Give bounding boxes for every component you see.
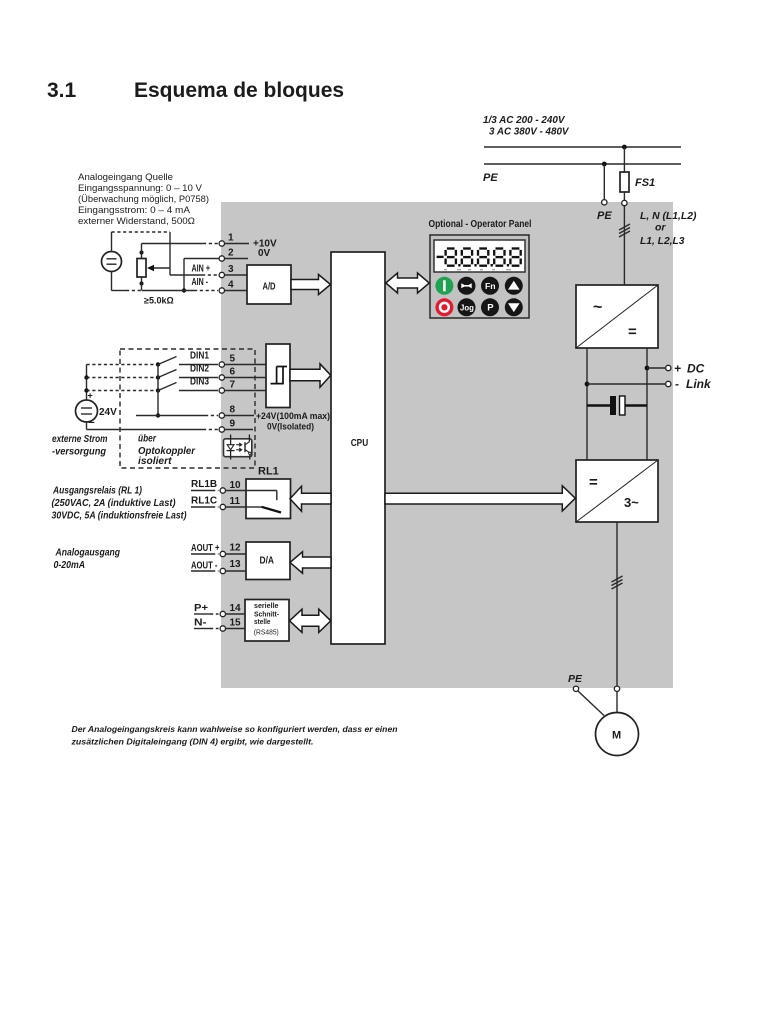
svg-text:=: = (628, 324, 637, 341)
wire DC minus tap (587, 383, 666, 385)
supply voltage label (483, 114, 569, 138)
svg-text:Eingangsstrom: 0 – 4 mA: Eingangsstrom: 0 – 4 mA (78, 205, 191, 216)
svg-text:PE: PE (597, 210, 612, 222)
terminal 11 (220, 496, 246, 510)
terminal PE circle (602, 200, 607, 205)
terminal 1 (219, 233, 249, 247)
wire DIN common (136, 365, 218, 418)
CPU block (331, 252, 385, 644)
terminal 15 (220, 618, 245, 632)
A/D converter block (247, 265, 291, 304)
svg-text:isoliert: isoliert (138, 456, 172, 467)
svg-text:P+: P+ (194, 603, 208, 614)
svg-text:AIN +: AIN + (192, 264, 211, 275)
svg-text:8: 8 (230, 405, 236, 416)
wire DC bus right (646, 348, 648, 460)
wire terminal 2 left (182, 259, 219, 293)
wire to terminal 1 (142, 243, 219, 245)
operator panel display (434, 240, 525, 272)
svg-text:FS1: FS1 (635, 177, 655, 189)
svg-text:4: 4 (228, 280, 234, 291)
section heading 3.1 Esquema de bloques (47, 79, 344, 102)
optocoupler dashed enclosure (120, 349, 255, 468)
potentiometer R1 (137, 244, 146, 291)
wire PE drop (603, 164, 605, 200)
svg-text:+24V(100mA max): +24V(100mA max) (256, 411, 330, 422)
svg-text:Jog: Jog (460, 303, 474, 312)
svg-text:3~: 3~ (624, 495, 639, 510)
0V label (258, 248, 271, 259)
terminal DC plus (666, 365, 671, 370)
operator panel title (429, 219, 532, 230)
L,N terminal label (640, 210, 697, 247)
terminal 2 (219, 248, 248, 262)
svg-text:Esquema de bloques: Esquema de bloques (134, 79, 344, 102)
svg-text:≥5.0kΩ: ≥5.0kΩ (144, 296, 174, 306)
svg-text:3: 3 (228, 264, 234, 275)
P+ label and wire (194, 603, 219, 614)
wire mains line L (484, 146, 681, 148)
svg-text:stelle: stelle (254, 617, 271, 626)
arrow CPU to relay (290, 486, 331, 511)
display seven-segment digits (437, 249, 521, 270)
svg-text:6: 6 (230, 367, 236, 378)
svg-text:RL1B: RL1B (191, 479, 217, 490)
terminal 14 (220, 603, 245, 617)
terminal 10 (220, 480, 246, 493)
svg-text:=: = (589, 474, 598, 491)
svg-text:DIN3: DIN3 (190, 377, 209, 388)
svg-text:Analogausgang: Analogausgang (55, 548, 120, 559)
svg-text:RL1: RL1 (258, 466, 279, 478)
svg-text:Analogeingang Quelle: Analogeingang Quelle (78, 172, 173, 183)
button O red (435, 298, 453, 316)
wire DC plus tap (647, 367, 666, 369)
svg-text:0-20mA: 0-20mA (54, 560, 86, 571)
terminal motor output (614, 686, 619, 691)
schmitt trigger input block (266, 344, 290, 408)
svg-text:DC: DC (687, 362, 705, 376)
rectifier block AC/DC (576, 285, 658, 348)
AOUT+ label and wire (191, 543, 220, 554)
wire mains line PE (484, 163, 681, 165)
switch DIN3 (156, 383, 218, 393)
operator panel housing (430, 235, 529, 318)
footnote caption (70, 724, 397, 747)
wire 24V plus rail (84, 365, 88, 401)
wire AIN+ to terminal 3 (170, 274, 218, 276)
RL1B label and wire (191, 479, 219, 491)
svg-text:-versorgung: -versorgung (52, 447, 106, 458)
switch DIN2 (156, 370, 218, 380)
RL1C label and wire (191, 496, 219, 508)
svg-text:14: 14 (230, 603, 242, 614)
FS1 label (635, 177, 655, 189)
terminal 7 (219, 380, 266, 394)
svg-text:0V: 0V (258, 248, 271, 259)
arrow A/D to CPU (291, 275, 331, 295)
button P (481, 298, 499, 316)
svg-text:P: P (487, 303, 494, 314)
svg-text:Link: Link (686, 377, 712, 391)
svg-text:(Überwachung möglich, P0758): (Überwachung möglich, P0758) (78, 194, 209, 205)
RL1 label (258, 466, 279, 478)
wire source top dashed (112, 232, 171, 252)
5k ohm label (144, 296, 174, 306)
svg-text:AOUT +: AOUT + (191, 543, 220, 554)
svg-text:7: 7 (230, 380, 236, 391)
optocoupler U3 (224, 435, 252, 460)
line break marks on input feed (619, 224, 630, 237)
AOUT- label and wire (191, 561, 219, 572)
node DC plus (645, 366, 650, 371)
wire motor feed (616, 522, 618, 686)
svg-text:5: 5 (230, 354, 236, 365)
wire DIN3 feed (87, 390, 156, 392)
DC link capacitor C1 (587, 396, 647, 415)
motor M (596, 713, 639, 756)
AIN labels (192, 264, 211, 288)
terminal 6 (219, 367, 266, 381)
inverter block DC/AC U2 (576, 460, 658, 522)
switch DIN1 (156, 357, 218, 367)
DIN2 label (190, 364, 209, 375)
wire PE to motor (578, 691, 604, 716)
wire DIN1 feed (87, 364, 156, 366)
terminal 8 (219, 405, 254, 419)
wire L drop to fuse (623, 147, 625, 172)
svg-text:–: – (89, 417, 95, 429)
svg-text:CPU: CPU (351, 438, 369, 449)
relay RL1 block (246, 479, 291, 519)
arrow CPU to inverter (385, 486, 575, 511)
svg-text:AOUT -: AOUT - (191, 561, 218, 572)
svg-text:N-: N- (194, 618, 207, 629)
terminal 13 (220, 559, 246, 574)
wire 24V minus to terminal 9 (87, 422, 219, 430)
arrow CPU to panel double (386, 273, 430, 293)
svg-text:(250VAC, 2A (induktive Last): (250VAC, 2A (induktive Last) (52, 498, 177, 509)
svg-text:10: 10 (230, 480, 242, 491)
svg-text:Optional - Operator Panel: Optional - Operator Panel (429, 219, 532, 230)
line break marks on motor feed (612, 576, 623, 589)
svg-text:Eingangsspannung: 0 – 10 V: Eingangsspannung: 0 – 10 V (78, 183, 203, 194)
svg-text:+: + (88, 391, 93, 401)
24V source V2 (76, 391, 118, 429)
svg-text:1/3 AC 200 - 240V: 1/3 AC 200 - 240V (483, 114, 565, 126)
svg-text:L, N (L1,L2): L, N (L1,L2) (640, 210, 697, 222)
svg-text:Fn: Fn (485, 281, 496, 291)
button down arrow (505, 298, 523, 316)
svg-text:A/D: A/D (263, 282, 276, 293)
wire AIN- bottom (112, 272, 219, 291)
DIN3 label (190, 377, 209, 388)
svg-text:Ausgangsrelais (RL 1): Ausgangsrelais (RL 1) (52, 486, 142, 497)
terminal 4 (219, 280, 247, 294)
svg-text:D/A: D/A (260, 556, 275, 567)
svg-text:Der Analogeingangskreis kann w: Der Analogeingangskreis kann wahlweise s… (72, 724, 398, 734)
svg-text:PE: PE (568, 673, 583, 685)
button up arrow (505, 277, 523, 295)
svg-text:11: 11 (230, 496, 241, 507)
button Jog (458, 298, 476, 316)
svg-text:M: M (612, 730, 621, 742)
relay annotation (52, 486, 188, 522)
potentiometer wiper arrow (147, 265, 170, 271)
button Fn (481, 277, 499, 295)
svg-text:30VDC, 5A (induktionsfreie Las: 30VDC, 5A (induktionsfreie Last) (52, 511, 188, 522)
arrow serial to CPU double (290, 609, 331, 632)
D/A converter block (246, 542, 290, 580)
svg-text:24V: 24V (99, 407, 117, 418)
svg-text:3.1: 3.1 (47, 79, 77, 102)
svg-text:über: über (138, 434, 157, 445)
svg-text:AIN -: AIN - (192, 277, 209, 288)
node on PE line (602, 162, 607, 167)
DC Link label (674, 362, 712, 392)
terminal 5 (219, 354, 266, 368)
wire DIN2 feed (87, 377, 156, 379)
svg-text:+: + (674, 362, 681, 376)
node DC minus (585, 382, 590, 387)
svg-text:3 AC 380V - 480V: 3 AC 380V - 480V (489, 126, 569, 138)
fuse FS1 (620, 172, 629, 200)
PE label (483, 172, 498, 184)
wire input feed into rectifier (623, 206, 625, 285)
svg-text:externer Widerstand, 500Ω: externer Widerstand, 500Ω (78, 216, 195, 227)
analog output annotation (54, 548, 121, 572)
DIN1 label (190, 351, 209, 362)
svg-text:DIN1: DIN1 (190, 351, 209, 362)
svg-text:RL1C: RL1C (191, 496, 217, 507)
svg-text:0V(Isolated): 0V(Isolated) (267, 422, 314, 433)
externe Strom annotation (52, 434, 108, 458)
PE terminal label (597, 210, 612, 222)
node on mains line L (622, 145, 627, 150)
svg-text:12: 12 (230, 543, 242, 554)
terminal PE output (573, 686, 578, 691)
svg-text:-: - (675, 377, 679, 391)
svg-text:~: ~ (593, 299, 602, 316)
svg-text:1: 1 (228, 233, 234, 244)
terminal DC minus (666, 381, 671, 386)
button I green (435, 277, 453, 295)
svg-text:2: 2 (228, 248, 234, 259)
terminal 3 (219, 264, 247, 278)
+10V label (253, 239, 277, 250)
svg-text:L1, L2,L3: L1, L2,L3 (640, 235, 685, 247)
svg-text:(RS485): (RS485) (254, 630, 279, 637)
svg-text:15: 15 (230, 618, 242, 629)
wire AIN+ branch vertical (169, 232, 171, 275)
terminal 9 (219, 419, 253, 433)
arrow CPU to D/A (290, 552, 331, 573)
inverter enclosure gray panel (221, 202, 673, 688)
voltage source V1 (102, 252, 122, 272)
svg-text:9: 9 (230, 419, 236, 430)
terminal L circle (622, 200, 627, 205)
analog input source annotation (78, 172, 209, 227)
wire DC bus left (586, 348, 588, 460)
terminal 12 (220, 543, 246, 557)
+24V output label (256, 411, 330, 433)
PE motor label (568, 673, 583, 685)
svg-text:DIN2: DIN2 (190, 364, 209, 375)
wire terminal to motor (616, 692, 618, 713)
serial interface block (245, 600, 289, 642)
svg-text:or: or (655, 222, 666, 234)
button reverse (458, 277, 476, 295)
svg-text:zusätzlichen Digitaleingang (D: zusätzlichen Digitaleingang (DIN 4) ergi… (70, 737, 313, 747)
arrow digital input to CPU (290, 364, 331, 387)
svg-text:13: 13 (230, 559, 242, 570)
ueber Optokoppler annotation (138, 434, 196, 468)
svg-text:externe Strom: externe Strom (52, 434, 108, 445)
svg-text:PE: PE (483, 172, 498, 184)
N- label and wire (194, 618, 219, 629)
